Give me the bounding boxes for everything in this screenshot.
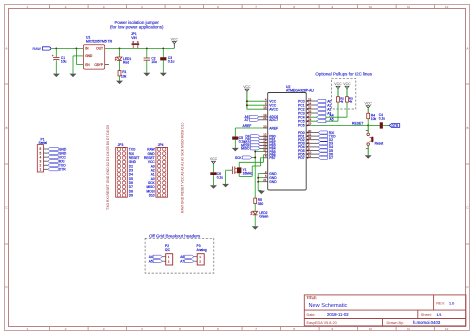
svg-text:A5: A5 [330, 117, 334, 121]
svg-text:VIN: VIN [131, 36, 137, 40]
svg-text:330: 330 [258, 202, 264, 206]
svg-text:ATMEGA328P-AU: ATMEGA328P-AU [286, 89, 314, 93]
svg-text:10k: 10k [371, 117, 377, 121]
svg-text:VCC: VCC [334, 82, 342, 86]
svg-text:1: 1 [40, 168, 42, 172]
svg-text:Analog: Analog [197, 248, 207, 252]
svg-text:VCC: VCC [343, 82, 351, 86]
svg-text:18: 18 [263, 106, 267, 110]
svg-text:RAW: RAW [33, 47, 42, 51]
svg-text:2018-11-02: 2018-11-02 [327, 312, 349, 317]
svg-text:MIC5205YM5 TR: MIC5205YM5 TR [86, 39, 113, 43]
svg-text:RESET: RESET [352, 121, 363, 125]
svg-text:DTR: DTR [59, 168, 66, 172]
svg-text:Drawn By:: Drawn By: [387, 321, 405, 325]
svg-text:AREF: AREF [243, 124, 252, 128]
svg-text:PC6: PC6 [298, 124, 305, 128]
svg-text:VCC: VCC [365, 102, 373, 106]
svg-text:AVCC: AVCC [269, 108, 279, 112]
svg-text:Reset: Reset [375, 141, 384, 145]
svg-text:D9: D9 [129, 194, 133, 198]
svg-text:D7: D7 [329, 156, 333, 160]
svg-text:10k: 10k [121, 75, 127, 79]
svg-text:CBYP: CBYP [94, 63, 103, 67]
svg-text:SCK: SCK [235, 156, 243, 160]
svg-text:h.momoi.0403: h.momoi.0403 [413, 320, 441, 325]
svg-text:Sheet:: Sheet: [421, 313, 432, 317]
svg-text:I2C: I2C [165, 248, 171, 252]
svg-text:PD7: PD7 [298, 156, 305, 160]
svg-text:REV:: REV: [436, 302, 445, 306]
svg-text:Optional Pullups for I2C lines: Optional Pullups for I2C lines [315, 71, 372, 76]
svg-text:A6: A6 [180, 255, 184, 259]
svg-text:JP4: JP4 [158, 143, 164, 147]
svg-text:12: 12 [445, 5, 449, 9]
svg-text:TXO RXI RESET GND GND D2 D3 D4: TXO RXI RESET GND GND D2 D3 D4 D5 D6 D7 … [106, 125, 110, 210]
svg-text:Date:: Date: [307, 313, 316, 317]
svg-text:10: 10 [369, 327, 373, 331]
svg-text:R1: R1 [122, 70, 126, 74]
svg-text:EN: EN [85, 63, 90, 67]
svg-text:A5: A5 [149, 260, 153, 264]
svg-text:10u: 10u [151, 60, 157, 64]
svg-text:0.1u: 0.1u [217, 176, 223, 180]
svg-text:20: 20 [263, 124, 267, 128]
svg-text:TITLE:: TITLE: [307, 296, 317, 300]
svg-text:22: 22 [263, 116, 267, 120]
svg-text:1.0: 1.0 [449, 302, 454, 306]
svg-text:JP3: JP3 [118, 143, 124, 147]
svg-text:0.1u: 0.1u [168, 60, 175, 64]
svg-text:GND: GND [269, 180, 277, 184]
svg-text:1/1: 1/1 [437, 313, 442, 317]
svg-text:EasyEDA V5.8.20: EasyEDA V5.8.20 [307, 321, 337, 325]
svg-text:11: 11 [407, 327, 410, 331]
svg-text:10u: 10u [61, 59, 67, 63]
svg-text:VCC: VCC [171, 37, 179, 41]
svg-text:A7: A7 [245, 118, 249, 122]
svg-text:(for low power applications): (for low power applications) [110, 24, 164, 29]
svg-text:Red: Red [123, 60, 129, 64]
svg-text:+: + [52, 54, 54, 58]
svg-text:VCC: VCC [210, 157, 218, 161]
svg-text:MISO: MISO [241, 147, 250, 151]
svg-text:B: B [466, 126, 468, 130]
svg-text:11: 11 [407, 5, 410, 9]
svg-text:10: 10 [369, 5, 373, 9]
svg-text:PB7: PB7 [269, 156, 275, 160]
svg-text:VCC: VCC [243, 85, 251, 89]
svg-text:0.1u: 0.1u [379, 117, 385, 121]
svg-text:RAW GND RESET VCC A3 A2 A1 A0: RAW GND RESET VCC A3 A2 A1 A0 SCK MISO M… [181, 122, 185, 213]
svg-text:16MHz: 16MHz [243, 171, 254, 175]
svg-text:A: A [5, 47, 7, 51]
svg-text:A: A [466, 47, 468, 51]
svg-text:12: 12 [445, 327, 449, 331]
svg-text:Green: Green [259, 215, 268, 219]
svg-text:Off Grid Breakout headers: Off Grid Breakout headers [149, 233, 201, 238]
svg-text:21: 21 [263, 178, 267, 182]
svg-text:GND: GND [85, 54, 93, 58]
svg-text:OUT: OUT [96, 47, 103, 51]
svg-text:ADC7: ADC7 [269, 118, 278, 122]
svg-text:A4: A4 [149, 255, 153, 259]
svg-text:AREF: AREF [269, 126, 278, 130]
svg-text:D10: D10 [149, 194, 155, 198]
svg-text:A7: A7 [180, 260, 184, 264]
svg-text:DTR: DTR [392, 124, 399, 128]
svg-text:New Schematic: New Schematic [309, 303, 348, 309]
svg-text:B: B [5, 126, 7, 130]
